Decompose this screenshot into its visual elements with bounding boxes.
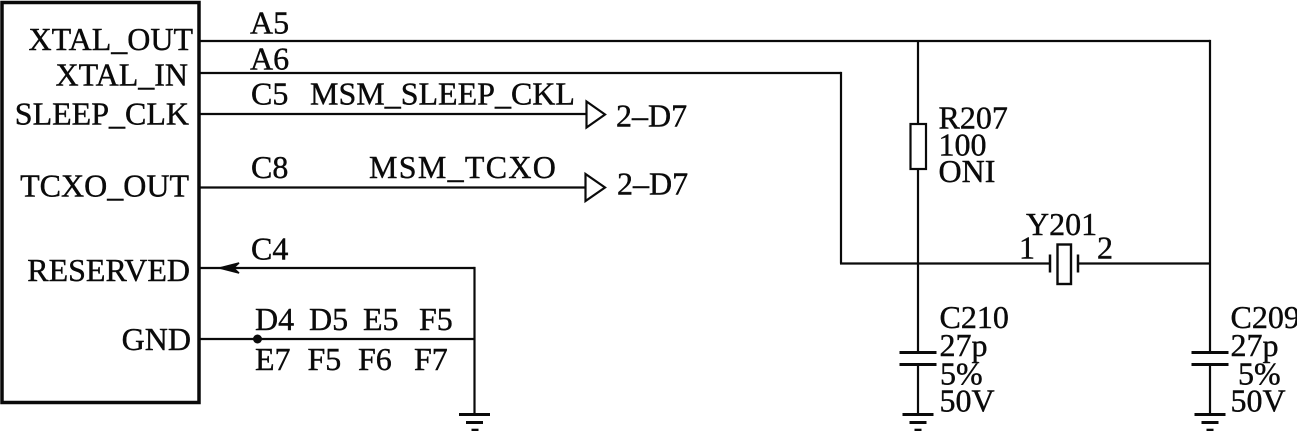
wire resistor to C210 (vertical): [917, 169, 919, 352]
wire RESERVED net C4 (horizontal): [199, 267, 475, 269]
wire C210 to ground: [917, 366, 919, 414]
ground symbol (under C209): [1195, 415, 1226, 431]
ground symbol (left): [459, 415, 490, 431]
svg-text:E5: E5: [363, 301, 399, 337]
off-page connector triangle (sleep clk): [587, 102, 606, 128]
IC box: [2, 3, 199, 403]
capacitor C210 top plate: [900, 351, 937, 354]
svg-text:A5: A5: [250, 5, 289, 41]
wire C209 to ground: [1209, 366, 1211, 414]
wire resistor branch vertical (top): [917, 41, 919, 124]
svg-text:50V: 50V: [1231, 383, 1286, 419]
junction dot on GND wire: [253, 335, 262, 344]
capacitor C210 bottom plate: [900, 363, 937, 366]
ground symbol (under C210): [903, 415, 934, 431]
svg-text:TCXO_OUT: TCXO_OUT: [20, 168, 189, 204]
svg-text:RESERVED: RESERVED: [27, 252, 190, 288]
resistor R207 body: [911, 124, 927, 169]
wire crystal net right (horizontal): [1078, 262, 1210, 264]
svg-text:Y201: Y201: [1026, 206, 1097, 242]
wire crystal net left (horizontal): [840, 262, 1050, 264]
svg-text:1: 1: [1019, 230, 1035, 266]
svg-text:D4: D4: [255, 301, 294, 337]
svg-text:F5: F5: [308, 341, 342, 377]
svg-text:MSM_SLEEP_CKL: MSM_SLEEP_CKL: [310, 76, 575, 112]
wire SLEEP_CLK net (horizontal): [199, 113, 587, 115]
svg-text:C4: C4: [251, 231, 288, 267]
svg-text:ONI: ONI: [939, 153, 996, 189]
svg-text:D5: D5: [309, 301, 348, 337]
svg-text:F6: F6: [358, 341, 392, 377]
off-page connector triangle (tcxo): [586, 174, 606, 201]
wire XTAL_IN net A6 (horizontal): [199, 72, 841, 74]
svg-text:XTAL_OUT: XTAL_OUT: [28, 21, 193, 57]
arrowhead into RESERVED pin: [220, 263, 240, 273]
wire A6 vertical drop: [840, 72, 842, 264]
svg-text:2–D7: 2–D7: [616, 98, 687, 134]
wire right branch vertical (A5 down to C209): [1209, 40, 1211, 352]
svg-text:F5: F5: [419, 301, 453, 337]
svg-text:MSM_TCXO: MSM_TCXO: [369, 149, 557, 185]
svg-text:C5: C5: [251, 76, 288, 112]
crystal Y201 left plate: [1049, 255, 1052, 273]
crystal Y201 body: [1058, 245, 1072, 285]
svg-text:E7: E7: [255, 341, 291, 377]
svg-text:SLEEP_CLK: SLEEP_CLK: [15, 96, 189, 132]
capacitor C209 top plate: [1192, 351, 1229, 354]
svg-text:2–D7: 2–D7: [617, 166, 688, 202]
svg-text:50V: 50V: [940, 383, 995, 419]
svg-text:GND: GND: [122, 321, 191, 357]
wire vertical from RESERVED/GND to ground: [473, 267, 475, 414]
wire TCXO_OUT net (horizontal): [199, 186, 586, 188]
svg-text:F7: F7: [414, 341, 448, 377]
wire XTAL_OUT net A5 (horizontal): [199, 40, 1210, 42]
capacitor C209 bottom plate: [1192, 363, 1229, 366]
svg-text:C8: C8: [251, 149, 288, 185]
svg-text:XTAL_IN: XTAL_IN: [55, 57, 188, 93]
crystal Y201 right plate: [1077, 255, 1080, 273]
svg-text:A6: A6: [250, 41, 289, 77]
svg-text:2: 2: [1097, 230, 1113, 266]
wire GND net (horizontal): [199, 338, 475, 340]
